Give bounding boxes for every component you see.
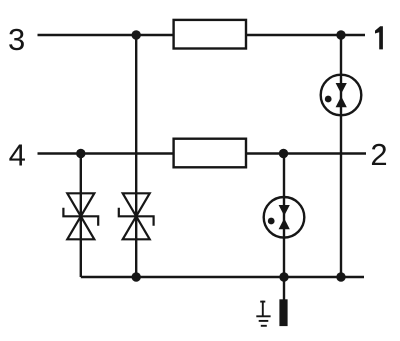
resistor R2 bbox=[174, 139, 246, 168]
wire: line 4 horizontal bbox=[38, 152, 367, 154]
gas discharge tube F1 (circle on line 1 branch) bbox=[321, 75, 362, 116]
svg-text:2: 2 bbox=[370, 137, 387, 172]
wire: vertical from node on line 4 down to bottom bus bbox=[80, 154, 82, 278]
junction node bus left bbox=[132, 272, 141, 281]
gas discharge tube F2 (circle on line 2 branch) bbox=[264, 197, 305, 238]
wire: vertical from node on line 1 down to bottom bus bbox=[340, 35, 342, 277]
ground (earth) symbol bbox=[256, 301, 270, 326]
svg-text:3: 3 bbox=[8, 22, 25, 57]
terminal label 1 bbox=[375, 26, 383, 49]
earth terminal bar bbox=[279, 299, 287, 326]
junction node bus middle bbox=[279, 272, 288, 281]
svg-text:4: 4 bbox=[9, 138, 26, 173]
resistor R1 bbox=[174, 20, 246, 49]
TVS suppressor diode D1 (bidirectional, on line 4 branch) bbox=[63, 193, 98, 239]
wire: line 3 horizontal bbox=[38, 34, 366, 36]
wire: vertical from node on line 2 down to earth bar bbox=[283, 154, 285, 300]
junction node on line 3 bbox=[132, 30, 141, 39]
wire: bottom ground bus bbox=[81, 276, 364, 278]
TVS suppressor diode D2 (bidirectional, on line 3 branch) bbox=[119, 193, 154, 239]
junction node on line 4 bbox=[76, 149, 85, 158]
wire: vertical from node on line 3 down to bottom bus bbox=[135, 35, 137, 277]
junction node on line 2 bbox=[279, 149, 288, 158]
junction node bus right bbox=[336, 272, 345, 281]
junction node on line 1 bbox=[336, 30, 345, 39]
